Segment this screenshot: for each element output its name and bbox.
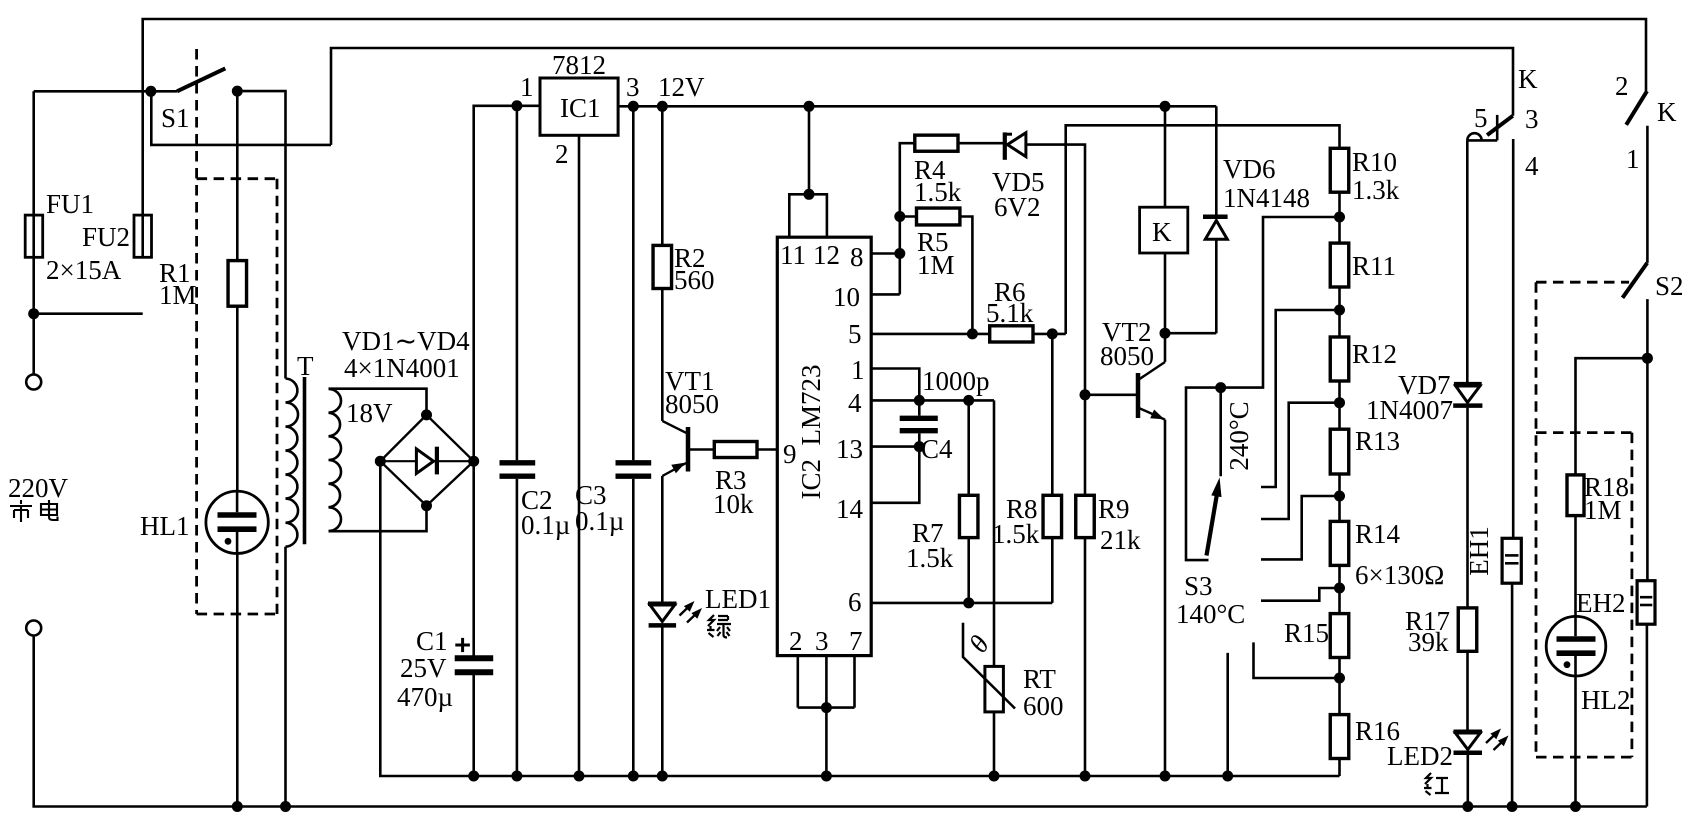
bridge inner diode bbox=[380, 460, 473, 462]
svg-text:9: 9 bbox=[783, 439, 797, 469]
svg-text:1.3k: 1.3k bbox=[1352, 175, 1400, 205]
svg-text:EH2: EH2 bbox=[1576, 588, 1626, 618]
svg-text:39k: 39k bbox=[1408, 627, 1449, 657]
bridge rectifier VD1-VD4 diamond bbox=[380, 415, 473, 506]
svg-text:S1: S1 bbox=[161, 103, 190, 133]
LED LED1 bbox=[648, 602, 677, 607]
wire VT1 emitter to LED1 bbox=[661, 476, 664, 602]
wire HL2 to bottom line bbox=[1574, 676, 1577, 807]
capacitor C4 bbox=[918, 400, 921, 415]
resistor R15 bbox=[1330, 614, 1349, 658]
svg-text:R12: R12 bbox=[1352, 339, 1397, 369]
resistor R17 bbox=[1458, 608, 1477, 651]
svg-text:1M: 1M bbox=[159, 280, 197, 310]
svg-text:R11: R11 bbox=[1352, 251, 1396, 281]
relay coil K bbox=[1164, 106, 1167, 207]
label C1 plus sign bbox=[455, 644, 470, 647]
svg-text:600: 600 bbox=[1023, 691, 1064, 721]
selector S3 wiper bracket bbox=[1186, 217, 1340, 560]
fuse FU2 bbox=[134, 215, 152, 257]
wire IC2 pin4 bbox=[871, 399, 994, 402]
dashed enclosure boundary left bbox=[195, 49, 198, 614]
wire VD5 to VT2 base line bbox=[1026, 145, 1085, 395]
svg-text:560: 560 bbox=[674, 265, 715, 295]
wire IC2 pin14 bbox=[871, 447, 919, 503]
wire contact 4 to EH1 bbox=[1512, 139, 1515, 538]
wire IC2 pin10 with R4/R5 feeder bbox=[871, 293, 900, 296]
neon lamp HL2 bbox=[1546, 616, 1606, 676]
svg-text:5.1k: 5.1k bbox=[986, 298, 1034, 328]
svg-text:IC1: IC1 bbox=[560, 93, 601, 123]
wire ladder R11-R12 bbox=[1338, 287, 1341, 337]
svg-text:4×1N4001: 4×1N4001 bbox=[344, 353, 460, 383]
svg-text:IC2 LM723: IC2 LM723 bbox=[796, 365, 826, 500]
wire R17 to LED2 bbox=[1466, 651, 1469, 730]
S3 140C contact to ground bbox=[1226, 653, 1229, 776]
svg-text:7812: 7812 bbox=[552, 50, 606, 80]
wire R4 to VD5 bbox=[958, 142, 1003, 145]
wire ladder R14-R15 bbox=[1338, 565, 1341, 613]
svg-text:240°C: 240°C bbox=[1224, 401, 1254, 470]
svg-text:K: K bbox=[1657, 97, 1677, 127]
wire IC1 pin2 to ground bbox=[578, 135, 581, 776]
S3 tap3 from R12/R13 bbox=[1261, 403, 1340, 519]
svg-text:C1: C1 bbox=[416, 626, 448, 656]
svg-text:13: 13 bbox=[836, 434, 863, 464]
wire R1 to HL1 bbox=[236, 306, 239, 490]
wire VT2 emitter to ground bbox=[1164, 420, 1167, 776]
resistor R4 bbox=[915, 135, 958, 151]
resistor R14 bbox=[1330, 521, 1349, 565]
dashed enclosure S2 thermostat bbox=[1535, 282, 1538, 757]
LED1 light arrows bbox=[680, 605, 692, 616]
svg-text:1: 1 bbox=[851, 355, 865, 385]
wire upper terminal to FU1/FU2 junction bbox=[34, 314, 143, 375]
wire bottom mains return line bbox=[34, 636, 1647, 807]
svg-text:8050: 8050 bbox=[665, 389, 719, 419]
wire IC2 pin8 bbox=[871, 252, 900, 255]
resistor R13 bbox=[1330, 429, 1349, 474]
resistor R18 bbox=[1567, 475, 1584, 516]
LED LED2 bbox=[1454, 730, 1483, 735]
S3 tap2 from R11/R12 bbox=[1261, 310, 1340, 487]
wire HL1 to bottom line bbox=[236, 554, 239, 807]
svg-text:R14: R14 bbox=[1355, 519, 1401, 549]
svg-text:S2: S2 bbox=[1655, 271, 1684, 301]
svg-text:RT: RT bbox=[1023, 664, 1056, 694]
wire IC2 pin1 bbox=[871, 369, 919, 401]
svg-text:R9: R9 bbox=[1098, 494, 1130, 524]
svg-text:2: 2 bbox=[789, 626, 803, 656]
svg-text:2: 2 bbox=[1615, 71, 1629, 101]
svg-text:R13: R13 bbox=[1355, 426, 1400, 456]
IC IC2 LM723 body bbox=[777, 237, 871, 655]
fuse FU1 bbox=[32, 91, 35, 313]
svg-text:8: 8 bbox=[850, 242, 864, 272]
svg-text:3: 3 bbox=[1525, 104, 1539, 134]
svg-text:T: T bbox=[297, 351, 314, 381]
wire R18 to HL2 bbox=[1574, 516, 1577, 617]
svg-text:1M: 1M bbox=[917, 250, 955, 280]
svg-text:21k: 21k bbox=[1100, 525, 1141, 555]
capacitor C2 bbox=[516, 106, 519, 460]
svg-text:1: 1 bbox=[520, 72, 534, 102]
resistor R3 bbox=[714, 442, 757, 458]
transformer T core bbox=[303, 377, 307, 544]
svg-text:12V: 12V bbox=[658, 72, 705, 102]
heating element EH1 bbox=[1502, 538, 1521, 583]
wire IC2 pins 2 3 7 to ground bbox=[798, 656, 855, 708]
resistor R2 bbox=[661, 106, 664, 245]
S3 wiper arrow bbox=[1207, 495, 1217, 556]
switch S1 bbox=[34, 90, 177, 93]
wire R2 to VT1 collector bbox=[661, 289, 664, 421]
svg-text:12: 12 bbox=[813, 240, 840, 270]
node bridge top bbox=[421, 409, 432, 420]
label shidian (mains) hand-drawn glyphs bbox=[10, 500, 58, 522]
svg-text:1.5k: 1.5k bbox=[992, 519, 1040, 549]
transistor VT2 8050 bbox=[1085, 393, 1137, 396]
wire IC2 pin13 bbox=[871, 445, 919, 448]
svg-text:1000p: 1000p bbox=[922, 366, 990, 396]
svg-text:220V: 220V bbox=[8, 473, 69, 503]
wire secondary bottom to bridge bbox=[329, 506, 427, 532]
svg-text:1M: 1M bbox=[1584, 495, 1622, 525]
svg-text:1.5k: 1.5k bbox=[906, 543, 954, 573]
svg-text:S3: S3 bbox=[1184, 571, 1213, 601]
svg-text:140°C: 140°C bbox=[1176, 599, 1245, 629]
neon lamp HL1 bbox=[206, 491, 268, 553]
wire contact 5 to VD7 bbox=[1466, 140, 1469, 382]
S3 selected contact stub bbox=[1219, 388, 1222, 477]
resistor R10 bbox=[1330, 148, 1349, 192]
svg-text:3: 3 bbox=[626, 72, 640, 102]
wire IC2 pin6 bbox=[871, 602, 1052, 605]
svg-text:2×15A: 2×15A bbox=[46, 255, 122, 285]
S3 tap4 from R13/R14 bbox=[1261, 496, 1340, 559]
svg-text:10: 10 bbox=[833, 282, 860, 312]
svg-text:5: 5 bbox=[848, 319, 862, 349]
transistor VT1 8050 bbox=[662, 421, 688, 434]
svg-text:1.5k: 1.5k bbox=[914, 177, 962, 207]
resistor R6 bbox=[990, 326, 1033, 342]
diode VD7 1N4007 bbox=[1454, 382, 1482, 387]
wire IC2 pin5 bbox=[871, 333, 990, 336]
wire S2 to EH2 bbox=[1646, 299, 1649, 581]
wire ladder R13-R14 bbox=[1338, 474, 1341, 521]
transformer T secondary winding bbox=[329, 389, 342, 531]
capacitor C1 electrolytic bbox=[472, 461, 475, 658]
transformer T primary winding bbox=[286, 379, 299, 547]
regulator IC1 7812 bbox=[540, 78, 618, 135]
wire S1 node1 bypass to live rail bbox=[151, 91, 331, 145]
svg-text:8050: 8050 bbox=[1100, 341, 1154, 371]
svg-text:1N4148: 1N4148 bbox=[1223, 183, 1310, 213]
svg-text:LED2: LED2 bbox=[1387, 741, 1453, 771]
zener diode VD5 6V2 bbox=[1003, 132, 1007, 159]
svg-text:FU1: FU1 bbox=[46, 189, 94, 219]
svg-text:14: 14 bbox=[836, 494, 864, 524]
resistor R1 bbox=[236, 91, 239, 261]
svg-text:4: 4 bbox=[1525, 151, 1539, 181]
S3 tap5 from R14/R15 bbox=[1261, 588, 1340, 601]
svg-text:LED1: LED1 bbox=[705, 584, 771, 614]
wire VT2 collector to relay bbox=[1164, 333, 1167, 362]
svg-text:10k: 10k bbox=[713, 489, 754, 519]
S3 tap6 from R15/R16 bbox=[1254, 642, 1340, 678]
wire bridge plus to IC1 input bbox=[474, 106, 540, 461]
wire top mains line to K contact 2 bbox=[143, 19, 1646, 215]
svg-text:K: K bbox=[1152, 217, 1172, 247]
wire ladder R10-R11 bbox=[1338, 192, 1341, 243]
LED2 light arrows bbox=[1486, 732, 1498, 743]
svg-text:6V2: 6V2 bbox=[994, 192, 1041, 222]
svg-text:VD6: VD6 bbox=[1223, 154, 1276, 184]
wire live rail y48 from S1 box to K contact 3 bbox=[331, 48, 1513, 145]
svg-text:VD1∼VD4: VD1∼VD4 bbox=[342, 326, 470, 356]
wire secondary top to bridge bbox=[329, 389, 427, 415]
svg-text:470µ: 470µ bbox=[397, 682, 453, 712]
wire 12V rail bbox=[618, 105, 1216, 108]
terminal 220V upper bbox=[26, 375, 41, 390]
svg-text:2: 2 bbox=[555, 139, 569, 169]
svg-text:FU2: FU2 bbox=[82, 222, 130, 252]
wire primary bottom to bottom line bbox=[284, 547, 287, 807]
capacitor C3 bbox=[632, 106, 635, 460]
svg-text:HL2: HL2 bbox=[1581, 685, 1631, 715]
svg-text:0.1µ: 0.1µ bbox=[521, 510, 570, 540]
svg-text:R10: R10 bbox=[1352, 147, 1397, 177]
relay contact K 2-1 bbox=[1626, 91, 1647, 125]
heating element EH2 bbox=[1637, 581, 1655, 625]
svg-text:1N4007: 1N4007 bbox=[1366, 395, 1453, 425]
resistor R8 bbox=[1051, 334, 1054, 495]
wire S1 output to transformer primary bbox=[237, 91, 285, 378]
wire ladder R15-R16 bbox=[1338, 658, 1341, 715]
wire contact 1 to S2 bbox=[1646, 126, 1649, 263]
svg-text:4: 4 bbox=[848, 388, 862, 418]
resistor R5 bbox=[900, 215, 917, 218]
wire R5 to pin5 node bbox=[960, 217, 973, 334]
wire R6 right to R10 feeder bbox=[1033, 333, 1066, 336]
svg-text:25V: 25V bbox=[400, 653, 447, 683]
node bridge right bbox=[468, 456, 479, 467]
wire VD7 to R17 bbox=[1466, 408, 1469, 608]
svg-text:HL1: HL1 bbox=[140, 511, 190, 541]
resistor R12 bbox=[1330, 337, 1349, 381]
svg-text:11: 11 bbox=[780, 240, 806, 270]
svg-text:3: 3 bbox=[815, 626, 829, 656]
wire R16 to ground rail bbox=[1338, 759, 1341, 777]
svg-text:R15: R15 bbox=[1284, 618, 1329, 648]
node bridge bottom bbox=[421, 500, 432, 511]
relay contact K 5-3 bbox=[1487, 116, 1513, 135]
resistor R11 bbox=[1330, 243, 1349, 287]
thermistor RT bbox=[985, 666, 1004, 712]
resistor R7 bbox=[967, 400, 970, 495]
switch S2 bbox=[1623, 263, 1648, 298]
wire S2 branch to R18 bbox=[1576, 358, 1648, 475]
terminal 220V lower bbox=[26, 621, 41, 636]
svg-text:0.1µ: 0.1µ bbox=[575, 506, 624, 536]
svg-text:1: 1 bbox=[1626, 144, 1640, 174]
svg-text:K: K bbox=[1518, 64, 1538, 94]
node bridge left bbox=[375, 456, 386, 467]
svg-text:6×130Ω: 6×130Ω bbox=[1355, 560, 1444, 590]
svg-text:5: 5 bbox=[1474, 103, 1488, 133]
diode VD6 1N4148 bbox=[1215, 106, 1218, 216]
svg-text:18V: 18V bbox=[346, 398, 393, 428]
wire pin4 to RT bbox=[993, 400, 996, 666]
resistor R9 bbox=[1080, 389, 1091, 400]
wire EH2 to bottom line bbox=[1646, 624, 1649, 806]
svg-text:6: 6 bbox=[848, 587, 862, 617]
svg-text:7: 7 bbox=[849, 626, 863, 656]
wire ladder R12-R13 bbox=[1338, 381, 1341, 429]
svg-text:C4: C4 bbox=[921, 434, 953, 464]
wire inner ground rail bbox=[380, 461, 1339, 776]
wire 12V to IC2 pins 11 12 bbox=[808, 106, 811, 194]
resistor R16 bbox=[1330, 715, 1349, 759]
